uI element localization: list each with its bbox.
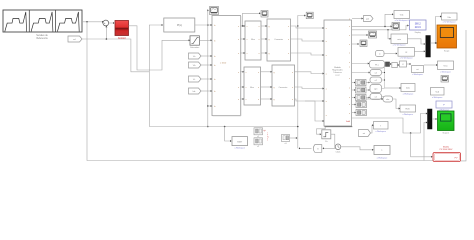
svg-text:Senales de: Senales de [36,35,48,37]
svg-text:a Workspace: a Workspace [375,131,385,133]
wire K out [407,63,411,65]
svg-text:a Workspace: a Workspace [234,147,244,149]
svg-text:Magnitudes: Magnitudes [332,69,342,72]
wire M row3 to scope S2 [352,34,367,36]
block Pmed [436,101,452,108]
wire C2 M 1 [295,72,324,74]
scope above block A [210,7,219,15]
mini block L1 [356,87,367,93]
wire M bottom loop [317,127,326,134]
from tag Vb [189,62,202,68]
red dashed D2 [267,133,269,141]
display block [410,20,427,30]
block E1 min [391,34,407,44]
oval abs [383,96,393,102]
wire PI out [195,24,211,26]
wire B2 to C2 y87 [261,86,272,88]
wire M to mini R1 [352,112,355,114]
wire chart output down [129,26,190,70]
wire E1 to mux [407,39,424,44]
svg-text:+: + [104,21,106,25]
svg-text:Saturation: Saturation [190,46,199,49]
svg-text:Referencia: Referencia [36,37,48,40]
svg-text:g: g [274,87,275,89]
wire A to B2 y99 [241,98,244,100]
svg-text:sqrt: sqrt [374,87,378,90]
wire delay to gate [323,134,335,148]
svg-text:Scope: Scope [444,51,449,53]
red outlined block [433,153,461,162]
block K [400,61,407,67]
wire PLL chain [390,63,391,65]
block wt ws [412,66,424,73]
wire mini L1 out [366,89,369,91]
wire mini L0 out [366,82,369,84]
svg-text:x: x [264,130,265,132]
sum junction circle [103,20,109,26]
node junction ref [106,38,108,40]
unit delay block [322,130,331,139]
from tag wt [359,130,371,137]
wire C2 M 3 [295,99,324,101]
block Vdc [394,11,410,19]
from tag Va [189,53,202,59]
block D3 [282,135,290,142]
svg-text:g: g [274,99,275,101]
wire ref to sum [82,27,106,39]
svg-text:s3: s3 [285,143,287,145]
PI controller block [164,18,195,32]
svg-text:o: o [238,26,239,28]
svg-text:s: s [246,99,247,101]
svg-text:s: s [246,87,247,89]
svg-text:o: o [238,39,239,41]
wire A to B2 y71.8 [241,71,244,73]
svg-text:In: In [214,106,216,108]
svg-text:g: g [269,26,270,28]
svg-text:abs: abs [386,99,389,101]
wire M to mini L1 [352,89,355,91]
oval collector vertical [384,65,386,88]
svg-text:x 1000: x 1000 [220,63,227,65]
block tout [374,146,390,155]
svg-text:a Workspace: a Workspace [403,93,413,95]
svg-text:a To Workspace: a To Workspace [400,58,413,60]
svg-text:Scope1: Scope1 [442,133,448,135]
svg-text:o: o [349,113,350,115]
svg-text:PI(s): PI(s) [177,24,182,27]
svg-text:pot: pot [366,17,369,20]
svg-text:a Workspace: a Workspace [440,71,450,73]
scope above B1 [261,11,268,18]
wire M to mini L0 [352,82,355,84]
svg-text:s: s [247,53,248,55]
svg-text:a Workspace: a Workspace [432,97,442,99]
scope S1 [392,23,400,31]
from tag Idc [189,88,202,94]
svg-text:s: s [247,39,248,41]
scope above C2 [306,12,313,19]
block C2 converter [272,65,295,106]
svg-text:o: o [238,53,239,55]
svg-text:IGBT: IGBT [237,141,243,143]
scope S3 [360,40,367,47]
svg-text:In: In [214,91,216,93]
svg-text:o: o [292,87,293,89]
oval O3 [370,94,382,100]
block D2 [254,138,263,145]
wire wt to freq [371,125,373,133]
wire mux2 from below [424,123,427,161]
svg-text:o: o [258,53,259,55]
wire A to B1 y26 [241,25,245,27]
svg-text:a To Workspace: a To Workspace [393,45,406,47]
svg-text:a To Workspace: a To Workspace [443,22,456,24]
svg-text:Control: Control [118,37,126,40]
saturation block [190,36,199,45]
svg-text:a Workspace: a Workspace [412,74,422,76]
svg-text:g: g [274,72,275,74]
wire M to O0 [352,72,369,74]
svg-text:o: o [258,39,259,41]
svg-text:o: o [238,99,239,101]
wire M row4 to scope S3 [352,43,358,45]
svg-text:o: o [238,72,239,74]
svg-text:o: o [349,67,350,69]
oval O2 [370,85,382,93]
wire into M bottom left [305,101,323,121]
wire E2 to mux [414,50,424,52]
mini block R0 [356,102,367,108]
svg-text:In: In [214,40,216,42]
svg-text:R2D: R2D [406,109,411,111]
wire M to mini L2 [352,97,355,99]
svg-text:V I P: V I P [335,75,340,77]
block freq [374,122,389,130]
svg-text:o: o [288,26,289,28]
svg-text:1/z: 1/z [325,141,328,143]
wire O2 out [382,88,385,90]
svg-text:In: In [214,25,216,27]
svg-text:o: o [292,99,293,101]
wire long vertical mid [207,25,209,127]
svg-text:o: o [349,78,350,80]
block M measurements [324,19,352,127]
block Iabc [401,84,415,92]
svg-text:PV 20kW 380V: PV 20kW 380V [440,149,454,151]
wire bottom bus y126.5 [149,126,297,128]
wire abs to rad2deg [393,99,400,109]
wire feedback up to PI [149,25,162,127]
svg-text:o: o [288,53,289,55]
block E2 [398,48,414,57]
rounded block PLL [370,61,385,69]
wire gate out left [299,147,311,149]
scope S2 [369,31,377,38]
svg-text:o: o [292,72,293,74]
wire branch into A bottom [208,105,211,107]
node v297b [297,25,298,26]
wire to scope B1 [243,13,260,26]
oval O0 [370,70,382,76]
svg-text:Display: Display [415,32,421,34]
svg-text:o: o [288,39,289,41]
signal builder block [3,10,82,32]
block after PLL [392,63,398,68]
wire mux to orange [430,42,436,44]
node bus2 [224,126,226,128]
vertical 297 [297,26,299,149]
block Vinv [438,61,454,70]
svg-text:In: In [214,65,216,67]
wire to Vinv [424,64,437,66]
wire minis to abs [367,98,383,100]
svg-text:219.9: 219.9 [415,26,422,29]
from tag Vc [189,76,202,82]
wire C2 M 2 [295,87,324,89]
rounded block R1 [376,51,385,57]
svg-text:Vabc: Vabc [346,121,350,123]
from tag ref [68,36,82,42]
svg-text:s2: s2 [257,146,259,148]
svg-text:o: o [258,87,259,89]
svg-text:o: o [349,88,350,90]
wire to block K [397,64,398,66]
svg-text:g: g [269,39,270,41]
svg-text:s: s [246,72,247,74]
mux bar top [426,36,431,58]
block Vab [431,88,445,96]
block above orange [442,13,458,20]
svg-text:Converter: Converter [279,86,288,89]
svg-text:o: o [349,104,350,106]
wire M to mini R0 [352,104,355,106]
mini block L0 [356,80,367,86]
svg-text:ref: ref [73,38,76,41]
wire A to B1 y53 [241,52,245,54]
goto tag pot [352,18,362,20]
wire collector to Iabc [385,87,401,89]
node v297a [297,126,299,128]
svg-text:In: In [214,79,216,81]
wire sum to chart [109,22,114,24]
block powergui [232,137,248,146]
wire junction down-left long [87,22,433,161]
block A control subsystem [212,16,241,116]
svg-text:Converter: Converter [274,38,283,41]
block B1 mux [245,21,261,60]
svg-text:a Workspace: a Workspace [377,158,387,160]
wire O0 out [382,72,385,74]
wire M to display [352,26,408,30]
wire mini L2 out [366,97,369,99]
block C1 converter [267,19,291,61]
svg-text:o: o [349,26,350,28]
svg-text:o: o [349,97,350,99]
wire R1 to E2 [384,53,396,55]
svg-text:o: o [349,53,350,55]
svg-text:o: o [258,72,259,74]
wire B2 to C2 y71.8 [261,71,272,73]
svg-text:g: g [269,53,270,55]
wire D3 out [290,137,297,139]
wire PI to scope [207,10,209,25]
mini block R1 [356,110,367,116]
svg-text:o: o [349,62,350,64]
wire up to block above orange [436,17,441,44]
wire B1 to C1 y53 [261,52,266,54]
svg-text:o: o [349,44,350,46]
svg-text:o: o [349,35,350,37]
wire B2 to C2 y99 [261,98,272,100]
block B2 mux [244,67,261,105]
wire up to block Vdc [385,14,393,26]
wire A to B2 y87 [241,86,244,88]
mini block L2 [356,95,367,101]
wire saturation out [199,39,211,41]
wire O3 out [382,96,385,98]
wire M to R2 [352,63,368,65]
svg-text:o: o [349,19,350,21]
svg-text:o: o [238,87,239,89]
wire M y118 to mux [352,114,427,134]
node junction sb [86,21,88,23]
block D1 [254,128,263,135]
wire signal builder to sum [82,21,103,23]
wire clock to tout [341,147,373,150]
svg-text:Clock: Clock [336,152,341,154]
svg-text:o: o [258,99,259,101]
wire branch to E1 [388,30,390,39]
svg-text:Mux: Mux [250,87,254,89]
wire node to red block [411,133,432,157]
svg-text:s: s [247,26,248,28]
wire M row2 [352,25,391,27]
gate block [313,145,322,153]
wire C1 M 3 [291,53,324,55]
oval O1 [370,77,382,83]
vertical right 466 [461,30,466,161]
clock block [335,144,341,150]
block rad2deg [400,105,416,112]
wire O1 out [382,79,385,81]
mux bar bottom [428,109,433,129]
wire mux to green [432,118,436,120]
svg-text:x: x [268,136,269,138]
svg-text:a Workspace: a Workspace [402,114,412,116]
wire to scope C2 [298,16,305,27]
svg-text:wt: wt [363,132,366,135]
wire to powergui [225,127,231,142]
svg-text:o: o [258,26,259,28]
svg-text:Mux: Mux [251,39,255,41]
dark block after PLL [386,62,390,66]
wire C1 M 1 [291,26,324,28]
wire A to B1 y39 [241,38,245,40]
wire B1 to C1 y26 [261,25,266,27]
wire B1 to C1 y39 [261,38,266,40]
wire ref corner to feedback [106,39,149,72]
wire C1 M 2 [291,39,324,41]
svg-text:In: In [214,56,216,58]
scope right small [441,76,449,83]
node y133 [410,132,412,134]
svg-text:a To Workspace1: a To Workspace1 [395,20,409,22]
